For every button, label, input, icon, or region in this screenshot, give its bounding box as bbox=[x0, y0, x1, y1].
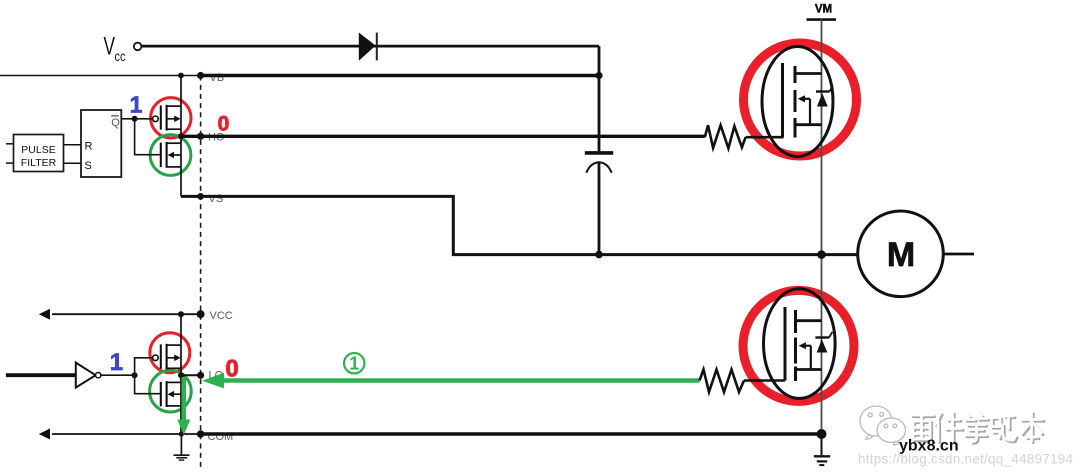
junction VS with bootstrap capacitor bbox=[595, 251, 603, 259]
wire VB to bootstrap node bbox=[201, 74, 599, 78]
svg-text:1: 1 bbox=[110, 349, 123, 376]
Vcc terminal circle bbox=[134, 43, 142, 51]
wire node to NMOS gate bbox=[135, 375, 160, 394]
wire HO to gate resistor bbox=[181, 135, 705, 138]
ground symbol at power rail bbox=[814, 437, 830, 465]
dashed IC boundary line bbox=[200, 76, 202, 471]
junction VB with bootstrap column bbox=[595, 72, 602, 79]
gate resistor R1 bbox=[705, 125, 746, 148]
red circle around low-side driver PMOS bbox=[150, 333, 190, 373]
junction node VB pin bbox=[197, 72, 204, 79]
RS latch U1 bbox=[81, 110, 121, 177]
node low-side driver input bbox=[132, 372, 138, 378]
high-side driver NMOS body bbox=[161, 142, 181, 168]
red circle around high-side driver PMOS bbox=[151, 98, 191, 138]
green circle around high-side driver NMOS bbox=[150, 135, 191, 176]
junction COM with power rail bbox=[817, 429, 827, 439]
motor M1 bbox=[858, 211, 944, 297]
wire PMOS drain to LO node bbox=[180, 368, 182, 382]
wire VB node down to PMOS source bbox=[180, 76, 182, 107]
wire LIN input bbox=[6, 373, 76, 377]
low-side driver PMOS body bbox=[161, 344, 181, 370]
svg-text:PULSE: PULSE bbox=[21, 144, 55, 156]
Q1 gate bar bbox=[781, 63, 784, 137]
gate resistor R2 bbox=[700, 370, 745, 393]
Q2 body arrow bbox=[799, 342, 811, 369]
green line LO to gate resistor R2 bbox=[222, 378, 700, 382]
watermark wechat icon bbox=[860, 406, 906, 445]
low-side driver NMOS body bbox=[161, 381, 181, 407]
red circle around MOSFET Q2 bbox=[743, 290, 854, 401]
Q1 body arrow bbox=[798, 95, 810, 125]
wire VS from driver bbox=[181, 196, 858, 254]
Q2 source lead bbox=[796, 368, 822, 371]
pulse filter input stubs bbox=[6, 143, 14, 145]
junction LO at driver output bbox=[178, 372, 184, 378]
junction node COM pin bbox=[197, 430, 205, 438]
wire node to PMOS gate bbox=[135, 358, 154, 375]
low-side driver PMOS gate bubble bbox=[153, 355, 159, 361]
green circle around low-side driver NMOS bbox=[150, 370, 192, 412]
wire NMOS source down to COM bbox=[180, 406, 182, 434]
svg-text:Q: Q bbox=[111, 117, 120, 129]
wire LO node to pin bbox=[181, 374, 201, 376]
VM rail bbox=[821, 20, 823, 455]
wires pulse filter to latch bbox=[64, 144, 82, 146]
junction node HO pin bbox=[197, 133, 204, 140]
wire COM line left with arrow bbox=[52, 433, 201, 435]
annotation circled 1 green bbox=[344, 353, 364, 373]
wire node down to NMOS gate bbox=[135, 119, 160, 155]
wire VB input from left bbox=[0, 75, 201, 77]
Q2 drain lead bbox=[796, 319, 822, 322]
svg-text:https://blog.csdn.net/qq_44897: https://blog.csdn.net/qq_44897194 bbox=[858, 452, 1073, 467]
Q1 drain lead bbox=[795, 72, 822, 75]
wire PMOS drain to HO node bbox=[180, 129, 182, 143]
red circle around MOSFET Q1 bbox=[744, 43, 857, 156]
svg-text:V: V bbox=[104, 33, 116, 61]
junction node VCC pin bbox=[197, 310, 205, 318]
junction VS with power rail bbox=[817, 250, 826, 259]
junction on VB at driver column bbox=[178, 73, 184, 79]
wire inverter to driver node bbox=[100, 374, 134, 376]
svg-text:0: 0 bbox=[225, 355, 238, 382]
wire VCC line with arrow bbox=[52, 313, 201, 315]
junction VCC at driver column bbox=[178, 311, 184, 317]
Q2 channel segments bbox=[794, 310, 797, 381]
wire VCC node down to PMOS source bbox=[180, 314, 182, 345]
svg-text:M: M bbox=[887, 236, 915, 274]
svg-text:VS: VS bbox=[209, 193, 224, 205]
ground symbol at driver COM bbox=[174, 434, 190, 460]
svg-text:S: S bbox=[85, 160, 92, 172]
green arrow down to ground bbox=[182, 377, 187, 421]
Q2 gate bar bbox=[784, 307, 787, 381]
wire Vcc to diode to bootstrap column bbox=[141, 45, 599, 48]
svg-text:VCC: VCC bbox=[210, 310, 233, 322]
Q1 body diode bbox=[816, 86, 833, 107]
high-side driver PMOS body bbox=[161, 105, 181, 131]
Q2 body diode bbox=[815, 332, 832, 353]
wire resistor to Q2 gate bbox=[744, 379, 785, 382]
svg-text:1: 1 bbox=[349, 354, 359, 374]
Q1 channel segments bbox=[794, 66, 797, 138]
svg-text:R: R bbox=[85, 140, 93, 152]
VM supply bar bbox=[807, 18, 837, 21]
wire bootstrap column down to capacitor bbox=[598, 46, 601, 151]
wire node to PMOS gate bubble bbox=[135, 118, 154, 120]
svg-text:0: 0 bbox=[218, 112, 230, 135]
high-side driver PMOS gate bubble bbox=[153, 116, 159, 122]
wire resistor to Q1 gate bbox=[746, 136, 784, 139]
green arrow current path horizontal bbox=[202, 373, 224, 389]
junction node VS pin bbox=[197, 193, 204, 200]
junction HO at driver output bbox=[178, 133, 184, 139]
junction COM at driver ground bbox=[179, 431, 184, 436]
svg-text:FILTER: FILTER bbox=[21, 157, 57, 169]
node high-side driver input bbox=[132, 116, 138, 122]
wire motor to right bbox=[943, 253, 974, 256]
inverter U2 bbox=[76, 363, 96, 388]
svg-text:VM: VM bbox=[815, 4, 832, 16]
wire latch Q to driver input node bbox=[121, 118, 134, 120]
wire COM to low side bbox=[201, 432, 822, 435]
svg-text:cc: cc bbox=[115, 49, 126, 64]
junction node LO pin bbox=[197, 372, 204, 379]
pulse filter block bbox=[14, 135, 64, 172]
bootstrap diode D1 bbox=[359, 33, 376, 61]
transistor Q1 high-side NMOS package ellipse bbox=[762, 47, 833, 157]
transistor Q2 low-side NMOS package ellipse bbox=[764, 289, 836, 399]
bootstrap capacitor C1 bbox=[585, 151, 613, 155]
wire NMOS source down to VS bbox=[180, 167, 182, 197]
svg-text:1: 1 bbox=[130, 91, 143, 117]
Q1 source lead bbox=[795, 123, 822, 126]
